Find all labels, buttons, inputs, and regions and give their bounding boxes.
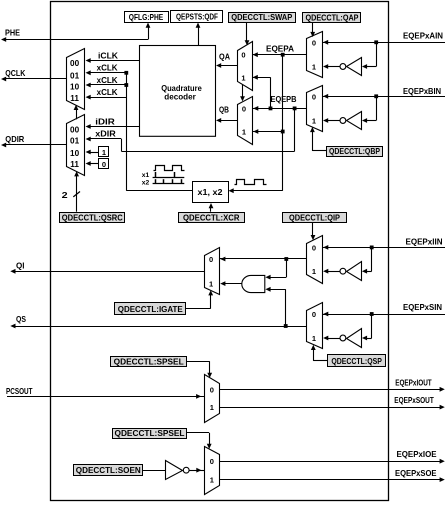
svg-text:decoder: decoder bbox=[164, 92, 196, 101]
svg-text:10: 10 bbox=[70, 149, 80, 158]
svg-text:00: 00 bbox=[70, 59, 80, 68]
svg-text:QB: QB bbox=[219, 105, 229, 114]
svg-text:1: 1 bbox=[242, 128, 246, 137]
svg-text:QDECCTL:QBP: QDECCTL:QBP bbox=[329, 146, 380, 156]
svg-text:QDECCTL:XCR: QDECCTL:XCR bbox=[183, 213, 240, 223]
svg-text:1: 1 bbox=[209, 280, 213, 289]
svg-text:QS: QS bbox=[16, 314, 26, 324]
svg-text:0: 0 bbox=[210, 385, 214, 394]
svg-text:xCLK: xCLK bbox=[97, 76, 118, 85]
svg-text:x1: x1 bbox=[142, 172, 150, 179]
svg-text:EQEPxSOE: EQEPxSOE bbox=[395, 468, 437, 478]
svg-text:QA: QA bbox=[219, 52, 230, 61]
svg-text:x1, x2: x1, x2 bbox=[198, 188, 224, 197]
svg-text:QDECCTL:QSP: QDECCTL:QSP bbox=[331, 356, 382, 366]
svg-text:01: 01 bbox=[70, 137, 80, 146]
svg-text:QDECCTL:SPSEL: QDECCTL:SPSEL bbox=[115, 428, 185, 438]
svg-text:QCLK: QCLK bbox=[5, 68, 25, 78]
svg-text:PCSOUT: PCSOUT bbox=[6, 386, 33, 396]
svg-text:0: 0 bbox=[312, 92, 316, 101]
svg-text:QDECCTL:IGATE: QDECCTL:IGATE bbox=[118, 304, 183, 314]
svg-text:QDECCTL:SOEN: QDECCTL:SOEN bbox=[76, 465, 141, 475]
svg-text:xCLK: xCLK bbox=[97, 64, 118, 73]
svg-text:iCLK: iCLK bbox=[98, 51, 118, 60]
svg-text:0: 0 bbox=[209, 255, 213, 264]
svg-text:QDECCTL:QSRC: QDECCTL:QSRC bbox=[62, 213, 123, 223]
svg-text:EQEPA: EQEPA bbox=[266, 43, 294, 53]
svg-text:01: 01 bbox=[70, 71, 80, 80]
svg-text:EQEPxBIN: EQEPxBIN bbox=[403, 86, 441, 96]
svg-text:EQEPB: EQEPB bbox=[271, 94, 297, 104]
svg-text:QDECCTL:SWAP: QDECCTL:SWAP bbox=[231, 12, 292, 22]
svg-text:0: 0 bbox=[210, 457, 214, 466]
svg-text:11: 11 bbox=[70, 160, 79, 169]
svg-text:2: 2 bbox=[62, 191, 69, 200]
svg-text:EQEPxIOE: EQEPxIOE bbox=[397, 449, 437, 459]
svg-text:QDECCTL:QIP: QDECCTL:QIP bbox=[289, 213, 340, 223]
svg-text:EQEPxSIN: EQEPxSIN bbox=[403, 302, 442, 312]
svg-text:EQEPxAIN: EQEPxAIN bbox=[403, 30, 443, 40]
svg-text:1: 1 bbox=[210, 476, 214, 485]
svg-text:x2: x2 bbox=[142, 179, 150, 186]
svg-text:xCLK: xCLK bbox=[97, 88, 118, 97]
svg-text:1: 1 bbox=[312, 334, 316, 343]
svg-text:0: 0 bbox=[312, 38, 316, 47]
svg-text:QDIR: QDIR bbox=[5, 134, 24, 144]
svg-text:00: 00 bbox=[70, 125, 80, 134]
svg-text:PHE: PHE bbox=[5, 28, 20, 38]
svg-text:0: 0 bbox=[102, 160, 106, 169]
svg-text:EQEPxSOUT: EQEPxSOUT bbox=[394, 395, 434, 405]
svg-text:xDIR: xDIR bbox=[95, 130, 116, 139]
svg-text:QI: QI bbox=[16, 260, 25, 270]
svg-text:1: 1 bbox=[312, 63, 316, 72]
svg-text:1: 1 bbox=[102, 148, 106, 157]
svg-text:QFLG:PHE: QFLG:PHE bbox=[129, 12, 164, 22]
svg-text:0: 0 bbox=[312, 310, 316, 319]
svg-text:1: 1 bbox=[210, 403, 214, 412]
svg-text:iDIR: iDIR bbox=[95, 117, 115, 126]
svg-text:EQEPxIIN: EQEPxIIN bbox=[406, 236, 443, 246]
svg-text:1: 1 bbox=[312, 117, 316, 126]
svg-text:1: 1 bbox=[241, 73, 245, 82]
svg-text:0: 0 bbox=[242, 104, 246, 113]
svg-text:0: 0 bbox=[241, 51, 245, 60]
svg-text:EQEPxIOUT: EQEPxIOUT bbox=[395, 377, 432, 387]
svg-text:QDECCTL:SPSEL: QDECCTL:SPSEL bbox=[114, 357, 184, 367]
svg-text:QEPSTS:QDF: QEPSTS:QDF bbox=[176, 12, 218, 22]
svg-text:10: 10 bbox=[70, 83, 80, 92]
svg-text:QDECCTL:QAP: QDECCTL:QAP bbox=[306, 13, 359, 23]
svg-text:1: 1 bbox=[312, 267, 316, 276]
svg-text:11: 11 bbox=[70, 94, 79, 103]
svg-text:0: 0 bbox=[312, 243, 316, 252]
